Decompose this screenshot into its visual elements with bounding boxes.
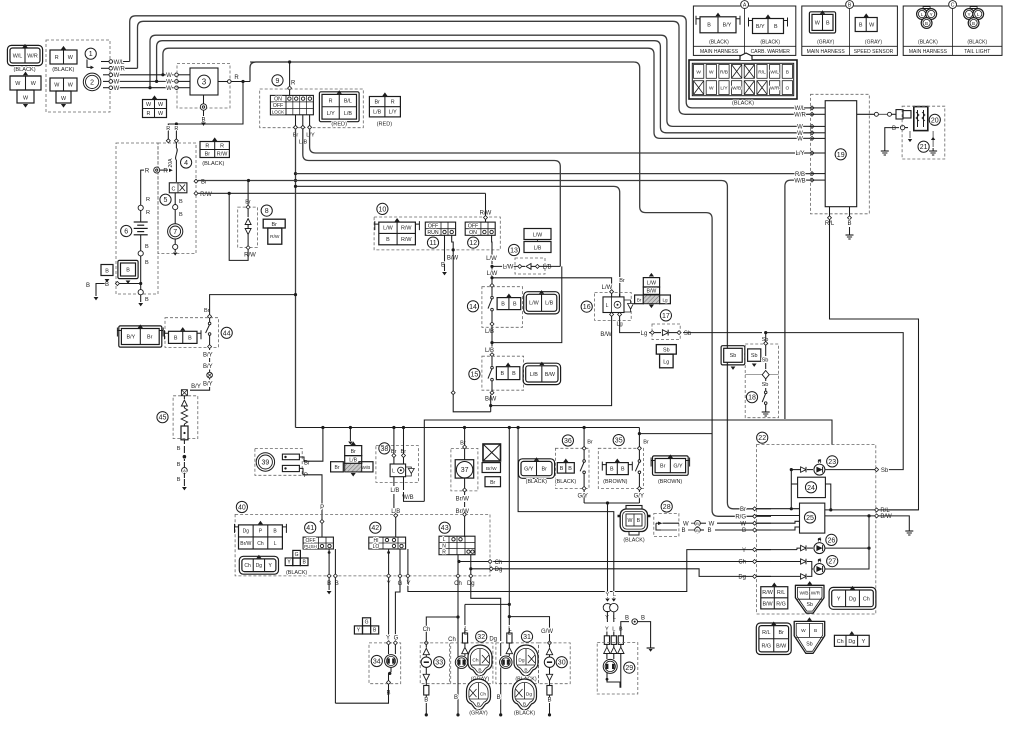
svg-text:Y: Y (967, 12, 970, 17)
svg-text:L: L (274, 541, 277, 547)
svg-text:Br: Br (374, 100, 380, 106)
svg-text:Y: Y (605, 626, 609, 632)
svg-text:L/W: L/W (533, 233, 542, 239)
svg-text:R/L: R/L (762, 630, 770, 636)
svg-text:OFF: OFF (428, 223, 438, 229)
svg-text:B: B (972, 21, 975, 26)
svg-text:39: 39 (262, 460, 270, 467)
svg-text:L: L (613, 592, 616, 598)
svg-text:Br: Br (490, 480, 495, 486)
svg-text:(GRAY): (GRAY) (469, 711, 488, 717)
svg-text:W/L: W/L (13, 53, 23, 59)
svg-text:26: 26 (828, 537, 836, 544)
svg-text:17: 17 (662, 313, 670, 320)
svg-text:Dg: Dg (518, 658, 524, 664)
svg-text:B/W: B/W (600, 332, 612, 338)
svg-text:B: B (524, 668, 527, 674)
svg-text:Y: Y (930, 12, 933, 17)
svg-text:4: 4 (184, 160, 188, 167)
svg-text:L/B: L/B (390, 488, 399, 494)
svg-text:C: C (951, 3, 955, 9)
svg-text:Ch: Ch (448, 637, 456, 643)
svg-text:Br: Br (351, 449, 356, 455)
svg-text:Sb: Sb (806, 641, 812, 647)
svg-text:Ch: Ch (472, 658, 478, 664)
svg-text:G/W: G/W (541, 629, 553, 635)
svg-text:Ch: Ch (480, 692, 486, 698)
svg-text:B/Y: B/Y (203, 352, 213, 358)
svg-text:B: B (500, 371, 504, 377)
svg-text:Br: Br (147, 334, 153, 340)
svg-text:B/W: B/W (646, 289, 656, 295)
svg-text:B: B (826, 20, 830, 26)
svg-text:W: W (696, 69, 701, 75)
svg-text:11: 11 (429, 240, 436, 247)
svg-text:B/Y: B/Y (203, 381, 213, 387)
svg-text:B: B (177, 462, 181, 468)
svg-text:23: 23 (828, 459, 836, 466)
svg-text:20: 20 (931, 117, 939, 124)
svg-text:B/Y: B/Y (126, 334, 135, 340)
svg-text:R: R (329, 99, 333, 105)
svg-text:(BLACK): (BLACK) (52, 67, 74, 73)
svg-text:B: B (177, 446, 181, 452)
svg-text:W: W (114, 86, 120, 92)
svg-text:41: 41 (306, 525, 314, 532)
svg-text:L/Y: L/Y (327, 111, 335, 117)
svg-text:(GRAY): (GRAY) (817, 40, 834, 46)
svg-text:B: B (105, 269, 109, 275)
svg-text:12: 12 (469, 240, 477, 247)
svg-text:31: 31 (523, 634, 531, 641)
svg-text:B: B (478, 668, 481, 674)
svg-text:R: R (234, 75, 239, 81)
svg-text:W/R: W/R (27, 53, 38, 59)
svg-text:18: 18 (748, 395, 756, 402)
svg-text:B: B (145, 244, 149, 250)
svg-text:38: 38 (381, 446, 389, 453)
svg-text:W/L: W/L (770, 69, 779, 75)
svg-text:W: W (709, 69, 714, 75)
svg-text:R/G: R/G (762, 643, 772, 649)
svg-text:W/R: W/R (113, 67, 125, 73)
svg-text:W: W (114, 80, 120, 86)
svg-text:OFF: OFF (273, 103, 283, 109)
svg-text:Dg: Dg (489, 637, 497, 643)
svg-text:B: B (786, 69, 789, 75)
svg-text:W/L: W/L (114, 60, 125, 66)
svg-text:W: W (114, 73, 120, 79)
svg-text:R: R (147, 111, 151, 117)
svg-text:RUN: RUN (427, 230, 438, 236)
svg-text:R: R (146, 197, 150, 203)
svg-text:(BLACK): (BLACK) (918, 40, 938, 46)
svg-text:Br: Br (778, 630, 784, 636)
svg-text:W/B: W/B (794, 178, 805, 184)
svg-text:25: 25 (806, 515, 814, 522)
svg-text:15: 15 (471, 372, 479, 379)
svg-text:L/W: L/W (503, 265, 514, 271)
svg-text:(BLACK): (BLACK) (623, 538, 644, 544)
svg-text:W/R: W/R (794, 113, 806, 119)
svg-text:(BLACK): (BLACK) (760, 40, 780, 46)
svg-text:Br: Br (643, 440, 649, 446)
svg-text:B: B (454, 695, 458, 701)
svg-text:ON: ON (274, 97, 282, 103)
svg-text:W: W (801, 628, 806, 634)
svg-text:R: R (442, 550, 446, 556)
svg-text:B: B (86, 283, 90, 289)
svg-text:B: B (707, 23, 711, 29)
svg-text:B: B (847, 221, 851, 227)
svg-text:10: 10 (379, 206, 387, 213)
svg-text:(BLACK): (BLACK) (286, 570, 307, 576)
svg-text:CARB. WARMER: CARB. WARMER (751, 49, 791, 55)
svg-text:B: B (188, 335, 192, 341)
svg-text:R/W: R/W (244, 253, 256, 259)
svg-text:R: R (391, 100, 395, 106)
svg-text:PUSH: PUSH (304, 544, 317, 549)
svg-text:Dg: Dg (526, 692, 532, 698)
svg-text:16: 16 (583, 304, 591, 311)
svg-text:B: B (174, 335, 178, 341)
svg-text:Ch: Ch (423, 627, 431, 633)
svg-text:R/W: R/W (401, 226, 412, 232)
svg-text:B: B (126, 267, 130, 273)
svg-text:Br: Br (272, 222, 278, 228)
svg-text:W: W (166, 86, 172, 92)
svg-text:Lg: Lg (662, 298, 668, 303)
svg-text:Br/W: Br/W (456, 497, 470, 503)
svg-text:(BLACK): (BLACK) (555, 479, 576, 485)
svg-text:LOCK: LOCK (272, 110, 285, 115)
svg-text:B: B (512, 371, 516, 377)
svg-text:B: B (814, 628, 817, 634)
svg-text:W: W (166, 80, 172, 86)
svg-text:44: 44 (223, 330, 231, 337)
svg-text:L/B: L/B (530, 372, 538, 378)
svg-text:B: B (501, 302, 505, 308)
svg-text:LO: LO (373, 544, 380, 550)
svg-text:(BLACK): (BLACK) (967, 40, 987, 46)
svg-text:B: B (892, 126, 896, 132)
svg-text:B: B (568, 466, 572, 472)
svg-text:TAIL LIGHT: TAIL LIGHT (964, 49, 990, 55)
svg-text:B: B (424, 698, 428, 704)
svg-text:B: B (696, 521, 699, 526)
svg-text:W/B: W/B (732, 86, 741, 92)
svg-text:34: 34 (373, 659, 381, 666)
svg-text:L/W: L/W (487, 271, 498, 277)
svg-text:Br: Br (660, 464, 666, 470)
svg-text:R/W: R/W (217, 151, 228, 157)
svg-text:45: 45 (159, 415, 167, 422)
svg-text:Sb: Sb (807, 602, 813, 608)
svg-text:5: 5 (164, 197, 168, 204)
svg-text:1: 1 (89, 51, 93, 58)
svg-text:G/Y: G/Y (578, 494, 588, 500)
svg-text:B: B (386, 237, 390, 243)
svg-text:33: 33 (435, 660, 443, 667)
svg-text:B: B (523, 702, 526, 708)
svg-text:Br: Br (587, 440, 593, 446)
svg-text:B/W: B/W (776, 643, 787, 649)
svg-text:L: L (392, 469, 395, 475)
svg-text:B: B (105, 282, 109, 288)
svg-text:ON: ON (469, 230, 477, 236)
svg-text:Br: Br (335, 465, 340, 471)
svg-text:R: R (163, 169, 168, 175)
svg-text:G/Y: G/Y (634, 494, 644, 500)
svg-text:29: 29 (625, 665, 633, 672)
svg-text:Lg: Lg (641, 331, 648, 337)
svg-text:2: 2 (90, 79, 94, 86)
svg-text:B: B (560, 466, 564, 472)
svg-text:Y: Y (386, 635, 390, 641)
svg-text:Sb: Sb (881, 468, 889, 474)
svg-text:R/W: R/W (270, 234, 280, 240)
svg-text:Br: Br (204, 308, 210, 314)
svg-text:B: B (742, 528, 746, 534)
svg-text:40: 40 (238, 505, 246, 512)
svg-text:W/R: W/R (770, 86, 780, 92)
svg-text:R: R (55, 55, 59, 61)
svg-text:OFF: OFF (468, 223, 478, 229)
svg-text:B: B (179, 212, 183, 218)
svg-text:(GRAY): (GRAY) (865, 40, 882, 46)
svg-text:G: G (394, 635, 399, 641)
svg-text:G: G (365, 620, 369, 626)
svg-text:Y: Y (837, 596, 841, 602)
svg-text:R/B: R/B (795, 172, 805, 178)
svg-text:B/Y: B/Y (723, 23, 732, 29)
svg-text:B: B (145, 260, 149, 266)
svg-text:Br/W: Br/W (486, 466, 497, 472)
svg-text:R: R (205, 143, 209, 149)
svg-text:R: R (146, 210, 150, 216)
svg-text:Y: Y (606, 592, 610, 598)
svg-text:21: 21 (920, 144, 928, 151)
svg-text:B: B (477, 702, 480, 708)
svg-text:C: C (172, 187, 176, 193)
svg-text:Ch: Ch (495, 560, 503, 566)
svg-text:(BLACK): (BLACK) (732, 101, 754, 107)
svg-text:8: 8 (265, 208, 269, 215)
svg-text:(BLACK): (BLACK) (202, 161, 224, 167)
svg-text:L/Y: L/Y (720, 86, 728, 92)
svg-text:30: 30 (558, 660, 566, 667)
svg-text:Dg: Dg (848, 639, 855, 645)
svg-text:R: R (145, 169, 150, 175)
svg-text:W/B: W/B (799, 590, 808, 596)
svg-text:Dg: Dg (849, 596, 856, 602)
svg-text:W/B: W/B (362, 465, 371, 470)
svg-text:R: R (220, 143, 224, 149)
svg-text:22: 22 (758, 435, 766, 442)
svg-text:Sb: Sb (751, 353, 758, 359)
svg-text:P: P (304, 473, 308, 479)
svg-text:(RED): (RED) (331, 121, 347, 127)
svg-text:R/G: R/G (735, 515, 746, 521)
svg-text:B: B (145, 297, 149, 303)
svg-text:(BLACK): (BLACK) (526, 479, 547, 485)
svg-text:B: B (637, 518, 641, 524)
svg-text:L/B: L/B (373, 110, 381, 116)
svg-text:Sb: Sb (762, 358, 769, 364)
svg-text:36: 36 (564, 438, 572, 445)
svg-text:B: B (925, 21, 928, 26)
svg-text:L/B: L/B (485, 329, 494, 335)
svg-text:L/Y: L/Y (389, 110, 397, 116)
svg-text:24: 24 (807, 485, 815, 492)
svg-text:B: B (621, 467, 625, 473)
svg-text:MAIN HARNESS: MAIN HARNESS (700, 49, 739, 55)
svg-text:B: B (848, 3, 852, 9)
svg-text:SPEED SENSOR: SPEED SENSOR (854, 49, 894, 55)
svg-text:14: 14 (469, 304, 477, 311)
svg-text:19: 19 (837, 152, 845, 159)
svg-text:Ch: Ch (837, 639, 844, 645)
svg-text:Br: Br (619, 278, 625, 284)
svg-text:B: B (177, 477, 181, 483)
svg-text:B/W: B/W (880, 514, 892, 520)
svg-text:L/B: L/B (542, 265, 551, 271)
svg-text:L/W: L/W (486, 256, 497, 262)
svg-text:W: W (709, 521, 715, 527)
svg-text:Sb: Sb (663, 348, 670, 354)
svg-text:35: 35 (615, 438, 623, 445)
svg-text:B/L: B/L (344, 99, 352, 105)
svg-text:L/B: L/B (545, 301, 553, 307)
svg-text:37: 37 (461, 467, 469, 474)
svg-text:(BLACK): (BLACK) (709, 40, 729, 46)
svg-text:7: 7 (173, 229, 177, 236)
svg-text:Br: Br (637, 298, 642, 303)
svg-text:W: W (628, 518, 633, 524)
svg-text:(BROWN): (BROWN) (658, 479, 682, 485)
svg-text:L/B: L/B (349, 458, 357, 464)
svg-text:Dg: Dg (495, 567, 503, 573)
svg-text:(BROWN): (BROWN) (603, 479, 627, 485)
svg-text:O: O (785, 86, 789, 92)
svg-text:R/G: R/G (776, 601, 786, 607)
svg-text:Sb: Sb (762, 382, 769, 388)
svg-text:Y: Y (862, 639, 866, 645)
svg-text:B: B (859, 22, 863, 28)
svg-text:32: 32 (477, 634, 485, 641)
svg-text:27: 27 (828, 559, 836, 566)
svg-text:Sb: Sb (684, 331, 692, 337)
svg-text:A: A (743, 3, 747, 9)
svg-text:MAIN HARNESS: MAIN HARNESS (807, 49, 846, 55)
svg-text:B/W: B/W (762, 601, 773, 607)
svg-text:W/L: W/L (795, 106, 806, 112)
svg-text:B: B (179, 199, 183, 205)
svg-text:(BLACK): (BLACK) (14, 67, 36, 73)
svg-text:W: W (709, 86, 714, 92)
svg-text:R/L: R/L (777, 590, 785, 596)
svg-text:W: W (797, 125, 803, 131)
svg-text:9: 9 (276, 78, 280, 85)
svg-text:Ch: Ch (244, 563, 251, 569)
svg-text:20A: 20A (168, 158, 174, 168)
svg-text:28: 28 (663, 504, 671, 511)
svg-text:B/Y: B/Y (191, 384, 201, 390)
svg-text:N: N (442, 543, 446, 549)
svg-text:B/Y: B/Y (203, 364, 213, 370)
svg-text:43: 43 (441, 525, 449, 532)
svg-text:B: B (707, 528, 711, 534)
svg-text:B: B (681, 528, 685, 534)
svg-text:R/L: R/L (758, 69, 766, 75)
svg-text:Br: Br (740, 507, 746, 513)
svg-text:L/Y: L/Y (795, 151, 804, 157)
svg-text:3: 3 (202, 77, 207, 86)
svg-text:L/W: L/W (383, 226, 393, 232)
svg-text:Dg: Dg (738, 575, 746, 581)
svg-text:W: W (797, 137, 803, 143)
svg-text:B: B (625, 615, 629, 621)
svg-text:Ch: Ch (863, 596, 870, 602)
svg-text:W: W (166, 73, 172, 79)
svg-text:G/Y: G/Y (673, 464, 683, 470)
svg-text:Br: Br (542, 466, 548, 472)
svg-text:W: W (683, 521, 689, 527)
svg-text:A: A (183, 468, 186, 473)
svg-text:W: W (740, 521, 746, 527)
svg-text:R: R (291, 81, 296, 87)
svg-text:(BLACK): (BLACK) (514, 711, 535, 717)
svg-text:L: L (443, 537, 446, 543)
svg-text:B/W: B/W (447, 256, 459, 262)
svg-text:L: L (921, 12, 924, 17)
svg-text:MAIN HARNESS: MAIN HARNESS (909, 49, 948, 55)
svg-text:L/B: L/B (344, 111, 352, 117)
svg-text:R/B: R/B (720, 69, 728, 75)
svg-text:G/Y: G/Y (524, 466, 534, 472)
svg-text:B: B (513, 302, 517, 308)
svg-text:B/W: B/W (545, 372, 556, 378)
svg-text:Y: Y (406, 581, 410, 587)
svg-text:W/R: W/R (811, 590, 821, 596)
svg-text:L/B: L/B (534, 246, 542, 252)
svg-text:B: B (774, 24, 778, 30)
svg-text:B/Y: B/Y (756, 24, 765, 30)
svg-text:L/W: L/W (647, 281, 656, 287)
svg-text:Sb: Sb (730, 353, 737, 359)
svg-text:13: 13 (510, 248, 518, 255)
svg-text:Dg: Dg (243, 529, 250, 535)
svg-text:L: L (612, 626, 615, 632)
svg-text:Br/W: Br/W (240, 541, 251, 547)
svg-text:Ch: Ch (738, 560, 746, 566)
svg-text:(RED): (RED) (377, 121, 393, 127)
svg-text:B: B (610, 467, 614, 473)
svg-text:B: B (497, 695, 501, 701)
svg-text:G: G (295, 552, 299, 558)
svg-text:6: 6 (124, 229, 128, 236)
svg-text:42: 42 (371, 525, 379, 532)
svg-text:Y: Y (742, 548, 746, 554)
svg-text:R/W: R/W (401, 237, 412, 243)
svg-text:L: L (606, 303, 609, 309)
svg-text:B: B (641, 615, 645, 621)
svg-text:B: B (547, 698, 551, 704)
svg-text:Dg: Dg (256, 563, 263, 569)
svg-text:P: P (320, 505, 324, 511)
svg-text:R/W: R/W (762, 590, 773, 596)
svg-text:L/Y: L/Y (306, 133, 315, 139)
